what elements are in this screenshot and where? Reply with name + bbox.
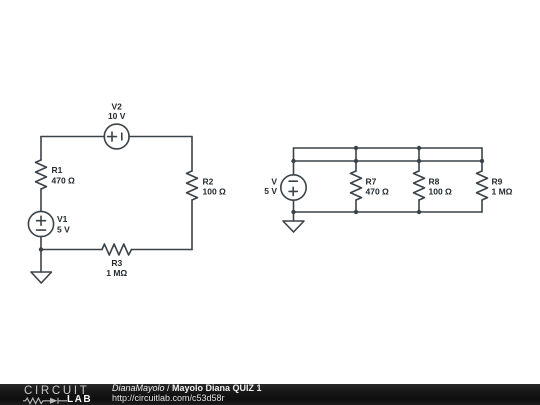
wire top-left horizontal — [41, 136, 104, 138]
resistor R3 — [102, 244, 132, 255]
wire R8 column lower — [418, 200, 420, 212]
ground left — [31, 250, 52, 284]
svg-text:100 Ω: 100 Ω — [429, 187, 453, 197]
svg-text:1 MΩ: 1 MΩ — [492, 187, 513, 197]
svg-text:V: V — [271, 177, 277, 187]
wire right lower rail — [294, 160, 483, 162]
resistor R1 — [36, 160, 47, 189]
wire top-right horizontal — [129, 136, 192, 138]
svg-text:R7: R7 — [366, 177, 377, 187]
wire R7 column lower — [355, 200, 357, 212]
svg-text:R8: R8 — [429, 177, 440, 187]
logo LAB — [67, 396, 92, 404]
wire R9 column upper — [481, 148, 483, 171]
resistor R9 — [477, 171, 488, 200]
junction dots right circuit — [291, 146, 484, 214]
svg-text:1 MΩ: 1 MΩ — [106, 268, 127, 278]
resistor R8 — [414, 171, 425, 200]
voltage source V — [281, 175, 306, 200]
svg-text:5 V: 5 V — [57, 225, 70, 235]
resistor R7 — [351, 171, 362, 200]
wire left rail lower — [40, 237, 42, 250]
wire bottom-right horizontal — [132, 249, 193, 251]
svg-text:470 Ω: 470 Ω — [366, 187, 390, 197]
resistor R2 — [187, 171, 198, 200]
voltage source V1 — [28, 211, 53, 236]
footer credit text — [112, 384, 262, 404]
footer bar — [0, 384, 540, 405]
svg-text:V2: V2 — [111, 102, 122, 112]
wire R8 column upper — [418, 148, 420, 171]
svg-text:R1: R1 — [52, 165, 63, 175]
logo zigzag diode — [23, 397, 67, 405]
wire right upper rail — [294, 147, 483, 149]
wire left rail upper — [40, 137, 42, 161]
wire right bottom rail — [294, 211, 483, 213]
svg-text:5 V: 5 V — [264, 186, 277, 196]
svg-text:100 Ω: 100 Ω — [203, 187, 227, 197]
wire R9 column lower — [481, 200, 483, 212]
wire R7 column upper — [355, 148, 357, 171]
svg-text:V1: V1 — [57, 214, 68, 224]
svg-text:R3: R3 — [111, 258, 122, 268]
svg-text:10 V: 10 V — [108, 111, 126, 121]
wire V column lower — [293, 200, 295, 212]
junction node left circuit — [39, 247, 43, 251]
wire right rail upper — [191, 137, 193, 172]
svg-text:R9: R9 — [492, 177, 503, 187]
wire right rail lower — [191, 200, 193, 250]
svg-text:R2: R2 — [203, 177, 214, 187]
logo CIRCUIT — [24, 386, 90, 397]
svg-text:470 Ω: 470 Ω — [52, 176, 76, 186]
wire V column upper — [293, 148, 295, 175]
voltage source V2 — [104, 124, 129, 149]
wire bottom-left horizontal — [41, 249, 102, 251]
ground right — [283, 212, 304, 232]
wire left rail mid — [40, 189, 42, 211]
